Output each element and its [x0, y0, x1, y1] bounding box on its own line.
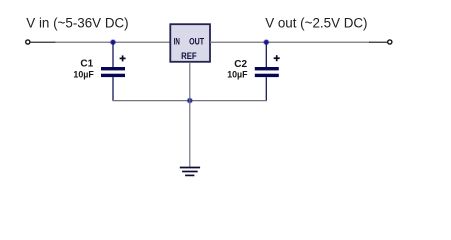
capacitor C2: [255, 42, 280, 101]
wire node A to U1 IN: [55, 41, 170, 43]
svg-text:OUT: OUT: [189, 37, 204, 47]
svg-text:C2: C2: [234, 59, 247, 70]
U1 pin label OUT: [189, 37, 204, 47]
label C2: [234, 59, 247, 70]
U1 pin label REF: [181, 51, 197, 61]
wire node B to output terminal: [369, 41, 387, 43]
wire U1 REF to ground: [189, 62, 191, 167]
node A input junction: [110, 39, 116, 45]
label C1: [80, 59, 93, 70]
net label V out: [265, 15, 367, 30]
svg-text:V out (~2.5V DC): V out (~2.5V DC): [265, 15, 367, 30]
regulator U1 body: [170, 24, 210, 62]
svg-text:V in (~5-36V DC): V in (~5-36V DC): [26, 15, 128, 30]
svg-text:C1: C1: [80, 59, 93, 70]
node C ground junction: [187, 98, 193, 104]
ground: [180, 168, 200, 176]
net label V in: [26, 15, 128, 30]
wire U1 OUT to node B: [210, 41, 370, 43]
value C2 10uF: [227, 69, 248, 79]
svg-text:REF: REF: [181, 51, 197, 61]
wire bottom rail C1 to C2: [112, 100, 267, 102]
value C1 10uF: [73, 69, 94, 79]
node B output junction: [263, 39, 269, 45]
capacitor C1: [101, 42, 126, 101]
output terminal: [388, 40, 392, 44]
svg-text:IN: IN: [174, 37, 180, 47]
input terminal: [26, 40, 30, 44]
svg-text:10µF: 10µF: [227, 69, 248, 79]
U1 pin label IN: [174, 37, 180, 47]
svg-text:10µF: 10µF: [73, 69, 94, 79]
wire segment at input terminal: [30, 41, 56, 43]
